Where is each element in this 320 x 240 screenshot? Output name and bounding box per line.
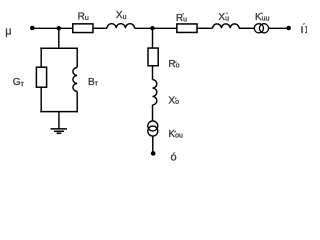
node junction 1 xyxy=(57,26,61,30)
resistor Ro xyxy=(148,48,158,66)
wire Xu to node xyxy=(135,27,177,29)
wire shunt top bar xyxy=(40,47,78,49)
wire Xv to Kvu xyxy=(239,27,255,29)
resistor Gt xyxy=(36,67,46,87)
wire main line left xyxy=(32,27,73,29)
svg-text:μ: μ xyxy=(5,26,11,38)
resistor Rv xyxy=(177,24,197,33)
inductor Xv xyxy=(213,24,239,28)
transformer Kvu left circle xyxy=(254,24,263,33)
node junction 2 xyxy=(150,26,154,30)
inductor Bt xyxy=(73,68,77,92)
wire Rv to Xv xyxy=(198,27,213,29)
ground bar 1 xyxy=(51,128,68,130)
ground bar 2 xyxy=(54,130,64,132)
resistor Ru xyxy=(73,24,93,33)
transformer Kou bottom circle xyxy=(148,126,158,136)
wire Kou to bottom terminal xyxy=(152,136,154,152)
transformer Kou top circle xyxy=(148,121,158,131)
svg-text:ó: ó xyxy=(171,152,177,164)
ground bar 3 xyxy=(57,132,62,134)
wire Ro to Xo xyxy=(152,66,154,80)
inductor Xu xyxy=(107,24,135,29)
wire shunt stem xyxy=(58,28,60,48)
transformer Kvu right circle xyxy=(259,24,268,33)
ground stem xyxy=(58,112,60,129)
wire right branch lower xyxy=(76,91,78,112)
node right terminal xyxy=(286,26,291,31)
wire right branch upper xyxy=(76,48,78,68)
wire shunt bottom bar xyxy=(40,111,78,113)
wire Kvu to right terminal xyxy=(269,27,289,29)
node bottom terminal xyxy=(151,151,156,156)
wire left branch upper xyxy=(40,48,42,68)
node left terminal xyxy=(30,26,35,31)
wire Xo to Kou xyxy=(152,105,154,121)
label right terminal xyxy=(302,24,307,34)
inductor Xo xyxy=(153,80,157,105)
wire Ru to Xu xyxy=(94,27,108,29)
wire middle branch upper xyxy=(152,28,154,48)
wire left branch lower xyxy=(40,87,42,112)
